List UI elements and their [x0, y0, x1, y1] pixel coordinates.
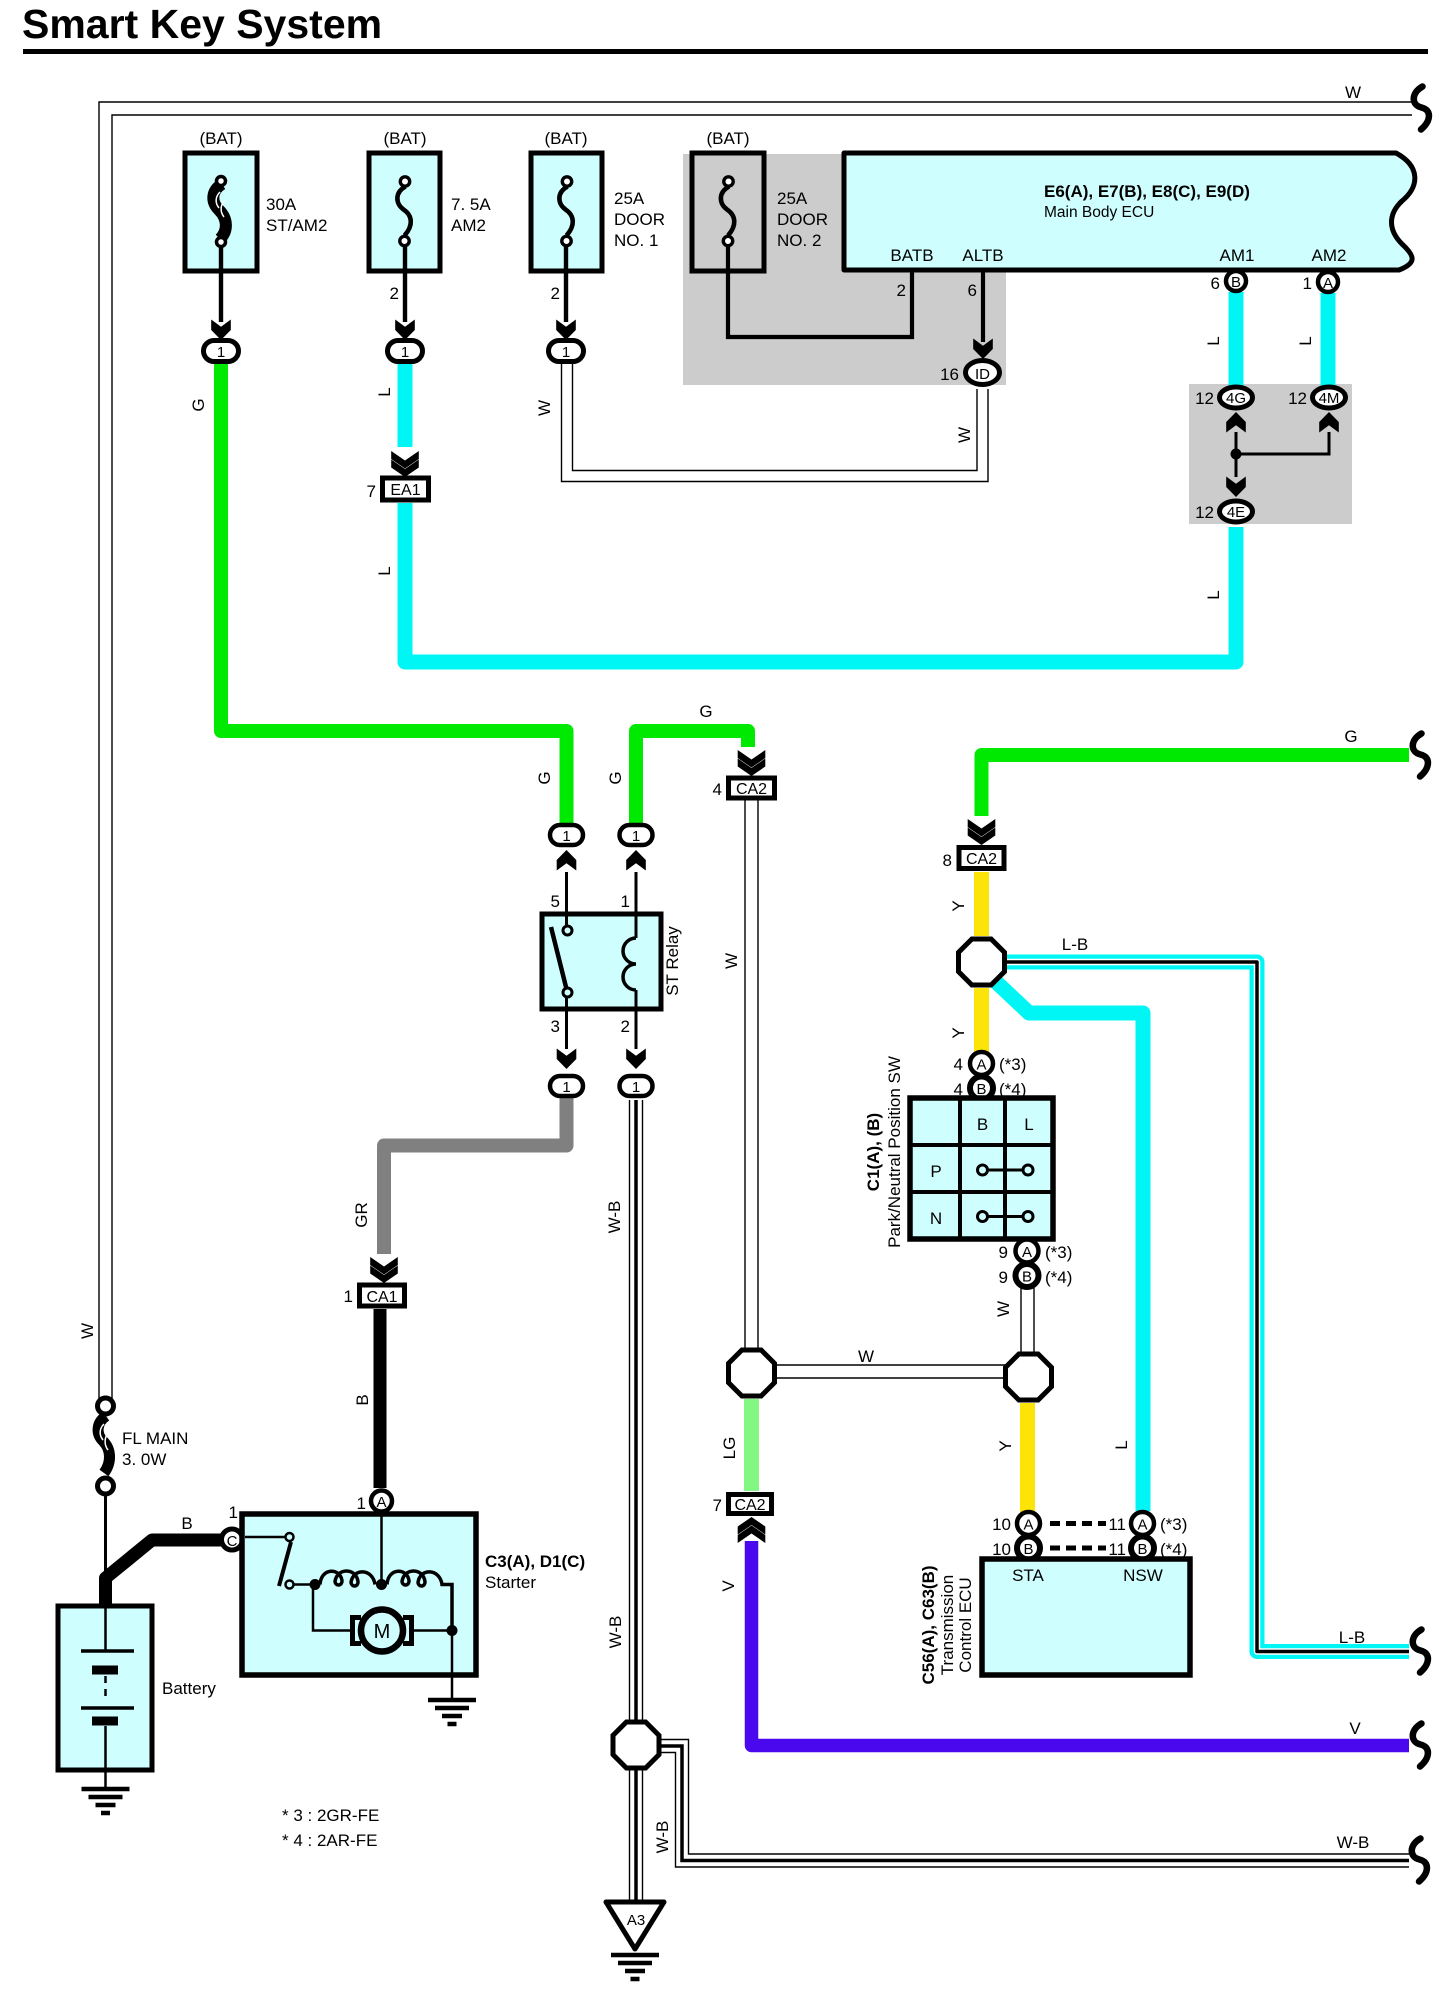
- connector 10 A: [1017, 1512, 1040, 1535]
- park/neutral position switch box C1: [910, 1098, 1053, 1239]
- wire W-B from ST relay pin2 connector down to octagon J3: [630, 1100, 643, 1722]
- svg-text:25A: 25A: [777, 189, 808, 208]
- svg-text:7: 7: [713, 1496, 722, 1515]
- svg-text:L: L: [1204, 336, 1223, 345]
- break symbol right end of G wire: [1413, 734, 1428, 777]
- octagon junction J1: [729, 1350, 775, 1396]
- octagon junction J4: [959, 939, 1005, 985]
- svg-text:4: 4: [713, 780, 722, 799]
- svg-text:30A: 30A: [266, 195, 297, 214]
- connector 11 B: [1131, 1537, 1154, 1560]
- svg-text:(*4): (*4): [999, 1080, 1026, 1099]
- svg-text:B: B: [1023, 1541, 1033, 1558]
- wire W from 9 B connector down to octagon J2: [1021, 1288, 1034, 1355]
- break symbol right end of V wire: [1413, 1724, 1428, 1767]
- wire GR from ST relay pin3 connector down, left, down to 1 CA1: [384, 1098, 567, 1254]
- arrow into connector below 30A fuse: [211, 320, 231, 341]
- svg-text:C1(A), (B): C1(A), (B): [864, 1113, 883, 1191]
- svg-text:A3: A3: [627, 1912, 645, 1929]
- wire G from ST relay pin1 connector up, right, down to 4 CA2: [636, 731, 748, 823]
- svg-text:6: 6: [968, 281, 977, 300]
- svg-text:W: W: [955, 427, 974, 443]
- connector box 7 CA2: [729, 1495, 772, 1515]
- wire LG from octagon J1 down to 7 CA2: [744, 1399, 759, 1491]
- svg-text:2: 2: [621, 1017, 630, 1036]
- octagon junction J2: [1006, 1354, 1052, 1400]
- svg-text:Transmission: Transmission: [938, 1575, 957, 1675]
- svg-text:4: 4: [954, 1055, 963, 1074]
- transmission control ECU box C56/C63: [982, 1559, 1190, 1675]
- svg-text:25A: 25A: [614, 189, 645, 208]
- wire L-B white separator: [1004, 962, 1409, 1652]
- svg-text:(BAT): (BAT): [199, 129, 242, 148]
- svg-text:(BAT): (BAT): [544, 129, 587, 148]
- svg-text:W: W: [1345, 83, 1361, 102]
- svg-text:(BAT): (BAT): [706, 129, 749, 148]
- svg-text:1: 1: [217, 344, 225, 361]
- arrow down into 4E: [1226, 477, 1246, 498]
- svg-text:Y: Y: [996, 1440, 1015, 1451]
- connector 1 below 30A fuse: [204, 341, 239, 362]
- svg-text:G: G: [535, 771, 554, 784]
- svg-text:A: A: [1023, 1517, 1033, 1534]
- ground symbol under A3: [611, 1955, 659, 1979]
- svg-text:A: A: [976, 1057, 986, 1074]
- svg-text:L: L: [1204, 590, 1223, 599]
- arrow up into 7 CA2: [738, 1517, 766, 1543]
- svg-text:4G: 4G: [1226, 390, 1246, 407]
- connector 9 A: [1016, 1240, 1039, 1263]
- svg-text:7: 7: [367, 482, 376, 501]
- svg-text:L: L: [1112, 1440, 1131, 1449]
- wire from fuse 30A to connector: [219, 246, 223, 322]
- gray harness box 2 (behind 4G/4M/4E connectors): [1189, 384, 1352, 524]
- svg-text:C56(A), C63(B): C56(A), C63(B): [919, 1565, 938, 1684]
- link wires between 4G, 4M and 4E: [1236, 432, 1329, 477]
- arrow into 7 EA1: [391, 451, 419, 477]
- svg-text:B: B: [181, 1514, 192, 1533]
- svg-text:4M: 4M: [1319, 390, 1340, 407]
- connector 1 below AM2 fuse: [388, 341, 423, 362]
- connector 16 ID: [966, 361, 1000, 385]
- svg-text:1: 1: [229, 1503, 238, 1522]
- svg-text:12: 12: [1195, 389, 1214, 408]
- svg-text:Starter: Starter: [485, 1573, 536, 1592]
- wire W from DOOR NO.1 connector 1 to ID connector: [562, 364, 989, 482]
- FL MAIN fusible link: [98, 1398, 114, 1494]
- svg-text:1: 1: [632, 828, 640, 845]
- svg-text:1: 1: [562, 1079, 570, 1096]
- gray harness box 1 (behind DOOR NO.2 fuse and ECU BATB/ALTB): [683, 154, 1006, 385]
- svg-text:3: 3: [551, 1017, 560, 1036]
- arrow into 1 CA1: [370, 1257, 398, 1283]
- connector box 8 CA2: [959, 848, 1004, 869]
- ECU pin B (AM1): [1226, 271, 1246, 291]
- svg-text:1: 1: [1303, 274, 1312, 293]
- svg-text:B: B: [1022, 1269, 1032, 1286]
- svg-text:5: 5: [551, 892, 560, 911]
- svg-text:G: G: [189, 398, 208, 411]
- svg-text:W: W: [78, 1323, 97, 1339]
- connector 12 4E: [1220, 501, 1253, 522]
- connector 1 at ST relay pin2: [620, 1076, 653, 1096]
- svg-text:W: W: [994, 1301, 1013, 1317]
- battery box: [58, 1606, 152, 1770]
- svg-text:10: 10: [992, 1540, 1011, 1559]
- svg-text:L-B: L-B: [1339, 1628, 1365, 1647]
- svg-text:* 4 : 2AR-FE: * 4 : 2AR-FE: [282, 1831, 377, 1850]
- svg-text:* 3 : 2GR-FE: * 3 : 2GR-FE: [282, 1806, 379, 1825]
- svg-text:(*3): (*3): [999, 1055, 1026, 1074]
- svg-text:Battery: Battery: [162, 1679, 216, 1698]
- svg-text:E6(A), E7(B), E8(C), E9(D): E6(A), E7(B), E8(C), E9(D): [1044, 182, 1250, 201]
- svg-text:Y: Y: [949, 900, 968, 911]
- svg-text:CA2: CA2: [734, 1497, 765, 1514]
- connector box 1 CA1: [360, 1285, 405, 1306]
- svg-text:N: N: [930, 1209, 942, 1228]
- break symbol right end of bottom W-B wire: [1412, 1839, 1427, 1882]
- svg-text:A: A: [376, 1494, 386, 1511]
- svg-text:G: G: [699, 702, 712, 721]
- arrow into ID connector: [973, 339, 993, 360]
- ECU pin A (AM2): [1318, 272, 1338, 292]
- svg-text:10: 10: [992, 1515, 1011, 1534]
- svg-text:L-B: L-B: [1062, 935, 1088, 954]
- svg-text:9: 9: [999, 1243, 1008, 1262]
- svg-text:DOOR: DOOR: [777, 210, 828, 229]
- svg-text:1: 1: [562, 344, 570, 361]
- wire L from ECU AM2 pin A down to 12 4M connector: [1321, 293, 1336, 386]
- svg-text:AM1: AM1: [1220, 246, 1255, 265]
- svg-text:CA2: CA2: [736, 781, 767, 798]
- svg-text:CA1: CA1: [366, 1289, 397, 1306]
- svg-text:C: C: [227, 1533, 238, 1550]
- svg-text:9: 9: [999, 1268, 1008, 1287]
- wire L-B from octagon J4 right, down, right to break at page edge (cyan band): [1004, 962, 1409, 1652]
- fuse 7.5A AM2: [369, 153, 440, 271]
- svg-text:(BAT): (BAT): [383, 129, 426, 148]
- junction dot 4G/4M/4E: [1231, 449, 1242, 460]
- svg-text:G: G: [1344, 727, 1357, 746]
- connector 12 4M: [1313, 387, 1346, 408]
- break symbol right end of L-B wire: [1413, 1630, 1428, 1673]
- wire W (white) top and left border run: from FL MAIN up left side and across top to break: [99, 102, 1412, 1399]
- connector 12 4G: [1220, 387, 1253, 408]
- wire from ECU pin ALTB down to ID connector: [981, 272, 985, 342]
- starter box C3/D1: [242, 1514, 476, 1698]
- svg-text:A: A: [1323, 275, 1333, 292]
- wire B from battery up to starter pin C: [106, 1540, 223, 1607]
- wire W from connector 4 CA2 down to octagon junction J1: [745, 800, 758, 1350]
- svg-text:4E: 4E: [1227, 504, 1245, 521]
- arrow into 8 CA2: [968, 819, 996, 845]
- svg-text:Main Body ECU: Main Body ECU: [1044, 204, 1154, 221]
- svg-text:ST/AM2: ST/AM2: [266, 216, 327, 235]
- svg-text:L: L: [375, 566, 394, 575]
- wire L from 7 EA1 down, right, up to 12 4E connector: [405, 503, 1236, 662]
- svg-text:1: 1: [632, 1079, 640, 1096]
- svg-text:W: W: [535, 400, 554, 416]
- arrow up into 4M: [1319, 412, 1339, 433]
- svg-text:B: B: [353, 1394, 372, 1405]
- svg-text:G: G: [606, 771, 625, 784]
- svg-text:B: B: [977, 1115, 988, 1134]
- octagon junction J3: [613, 1722, 659, 1768]
- fuse 25A DOOR NO.2: [692, 153, 764, 271]
- svg-text:A: A: [1022, 1244, 1032, 1261]
- svg-text:M: M: [374, 1621, 391, 1643]
- wire B from 1 CA1 down to starter pin A: [374, 1309, 387, 1488]
- connector 4 B: [970, 1077, 993, 1100]
- svg-text:1: 1: [401, 344, 409, 361]
- svg-text:B: B: [1231, 274, 1241, 291]
- svg-text:(*3): (*3): [1045, 1243, 1072, 1262]
- svg-text:(*4): (*4): [1045, 1268, 1072, 1287]
- wire L from 7.5A AM2 fuse connector down to 7 EA1: [398, 362, 413, 447]
- svg-text:7. 5A: 7. 5A: [451, 195, 491, 214]
- wire G from page break right edge to 8 CA2: [982, 755, 1410, 816]
- svg-text:2: 2: [390, 284, 399, 303]
- svg-text:2: 2: [897, 281, 906, 300]
- svg-text:4: 4: [954, 1080, 963, 1099]
- svg-text:FL MAIN: FL MAIN: [122, 1429, 188, 1448]
- connector 10 B: [1017, 1537, 1040, 1560]
- svg-text:ST Relay: ST Relay: [663, 926, 682, 996]
- wire from fuse AM2 to connector: [403, 246, 407, 322]
- svg-text:Y: Y: [949, 1027, 968, 1038]
- arrow into connector below DOOR NO.1 fuse: [556, 320, 576, 341]
- ground symbol under battery: [82, 1789, 130, 1813]
- arrows up into ST relay top connectors: [557, 850, 577, 871]
- svg-text:W: W: [858, 1347, 874, 1366]
- wire from battery to ground: [104, 1772, 107, 1789]
- svg-text:AM2: AM2: [1312, 246, 1347, 265]
- wire L from octagon J4 diagonal, right, down to 11 A connector: [994, 980, 1143, 1511]
- connector 1 below DOOR NO.1 fuse: [549, 341, 584, 362]
- wire Y from octagon J4 down to 4 A connector: [974, 988, 989, 1052]
- wire V from 7 CA2 down and right to break at page edge: [752, 1541, 1410, 1746]
- svg-text:12: 12: [1195, 503, 1214, 522]
- svg-text:6: 6: [1211, 274, 1220, 293]
- svg-text:ID: ID: [975, 366, 990, 383]
- svg-text:W-B: W-B: [606, 1616, 625, 1649]
- svg-text:V: V: [1349, 1719, 1361, 1738]
- svg-text:W-B: W-B: [1337, 1833, 1370, 1852]
- svg-text:P: P: [930, 1162, 941, 1181]
- svg-text:GR: GR: [352, 1202, 371, 1228]
- svg-text:11: 11: [1108, 1515, 1126, 1534]
- connector 1 at ST relay pin3: [550, 1076, 583, 1096]
- wire L from ECU AM1 pin B down to 12 4G connector: [1229, 292, 1244, 386]
- connector 1 at ST relay pin5: [550, 825, 583, 845]
- svg-text:Control ECU: Control ECU: [956, 1577, 975, 1672]
- svg-text:11: 11: [1108, 1540, 1126, 1559]
- dashed links between 10 and 11 connectors: [1050, 1521, 1106, 1526]
- wire G from 30A fuse connector down, right, down to ST relay pin5 connector: [221, 360, 567, 823]
- wire from FL MAIN down to B wire: [104, 1494, 107, 1580]
- svg-text:W-B: W-B: [653, 1821, 672, 1854]
- svg-text:NO. 2: NO. 2: [777, 231, 821, 250]
- svg-text:NSW: NSW: [1123, 1566, 1163, 1585]
- main body ECU box E6/E7/E8/E9: [844, 153, 1415, 270]
- svg-text:1: 1: [344, 1287, 353, 1306]
- svg-text:L: L: [375, 387, 394, 396]
- wire W-B from octagon J3 down to ground A3: [630, 1768, 643, 1904]
- break symbol right end of top W wire: [1414, 87, 1429, 130]
- connector box 7 EA1: [383, 478, 429, 500]
- arrows down into ST relay bottom connectors: [557, 1049, 577, 1070]
- svg-text:8: 8: [943, 851, 952, 870]
- arrow up into 4G: [1226, 412, 1246, 433]
- svg-text:W-B: W-B: [605, 1201, 624, 1234]
- fuse 25A DOOR NO.1: [531, 153, 602, 271]
- ground triangle A3: [606, 1902, 664, 1949]
- svg-text:(*3): (*3): [1160, 1515, 1187, 1534]
- svg-text:1: 1: [357, 1494, 366, 1513]
- svg-text:W: W: [722, 953, 741, 969]
- connector 11 A: [1131, 1512, 1154, 1535]
- svg-text:BATB: BATB: [890, 246, 933, 265]
- svg-text:12: 12: [1288, 389, 1307, 408]
- connector box 4 CA2: [729, 778, 775, 798]
- wire L-B black core stripe: [1004, 962, 1409, 1652]
- wire W-B from octagon J3 right, down, and right to break at page edge: [660, 1740, 1409, 1868]
- wire from fuse DOOR NO.2 to ECU pin BATB: [728, 246, 912, 337]
- arrow into connector below AM2 fuse: [395, 320, 415, 341]
- starter pin C connector: [222, 1529, 243, 1550]
- wire from fuse DOOR NO.1 to connector: [564, 246, 568, 322]
- title: Smart Key System: [22, 1, 1428, 54]
- svg-text:C3(A), D1(C): C3(A), D1(C): [485, 1552, 585, 1571]
- svg-text:16: 16: [940, 365, 959, 384]
- svg-text:NO. 1: NO. 1: [614, 231, 658, 250]
- svg-text:(*4): (*4): [1160, 1540, 1187, 1559]
- svg-text:Smart Key System: Smart Key System: [22, 1, 382, 47]
- svg-text:1: 1: [562, 828, 570, 845]
- starter pin A connector: [371, 1491, 392, 1512]
- svg-text:V: V: [719, 1580, 738, 1592]
- fuse 30A ST/AM2 (fusible link): [185, 153, 257, 271]
- ST relay box: [542, 872, 661, 1049]
- wire W between octagon J1 and octagon J2: [774, 1365, 1006, 1378]
- svg-text:Park/Neutral Position SW: Park/Neutral Position SW: [885, 1056, 904, 1248]
- svg-text:AM2: AM2: [451, 216, 486, 235]
- svg-text:DOOR: DOOR: [614, 210, 665, 229]
- svg-text:L: L: [1024, 1115, 1033, 1134]
- ground symbol under starter: [428, 1700, 476, 1724]
- svg-text:A: A: [1137, 1517, 1147, 1534]
- svg-text:3. 0W: 3. 0W: [122, 1450, 166, 1469]
- svg-text:1: 1: [621, 892, 630, 911]
- svg-text:L: L: [1296, 336, 1315, 345]
- svg-text:EA1: EA1: [390, 482, 420, 499]
- svg-text:LG: LG: [720, 1437, 739, 1460]
- connector 1 at ST relay pin1: [620, 825, 653, 845]
- wire Y from 8 CA2 down to octagon J4: [974, 872, 989, 936]
- svg-text:B: B: [1137, 1541, 1147, 1558]
- svg-text:ALTB: ALTB: [962, 246, 1003, 265]
- svg-text:STA: STA: [1012, 1566, 1044, 1585]
- connector 9 B: [1016, 1264, 1039, 1287]
- arrow into 4 CA2: [738, 750, 766, 776]
- svg-text:CA2: CA2: [966, 851, 997, 868]
- wire Y from octagon J2 down to 10 A connector: [1020, 1403, 1035, 1513]
- svg-text:2: 2: [551, 284, 560, 303]
- connector 4 A: [970, 1052, 993, 1075]
